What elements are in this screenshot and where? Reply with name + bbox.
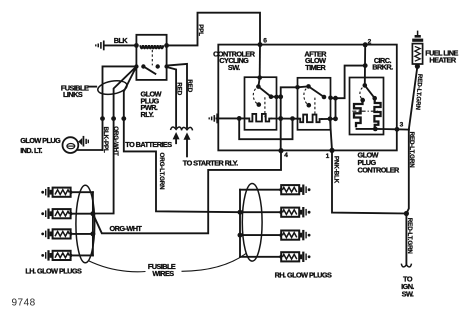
- fusible links ellipse: [97, 79, 128, 97]
- wire: [74, 254, 93, 256]
- cycling dashed arc: [253, 89, 257, 104]
- wire contact to timer: [271, 96, 281, 98]
- timer dashed drop: [314, 98, 316, 115]
- svg-text:LINKS: LINKS: [63, 90, 83, 99]
- fuel line heater element: [412, 44, 422, 64]
- wire: [240, 234, 278, 236]
- svg-text:PPL: PPL: [197, 24, 204, 36]
- LH bus: [92, 192, 94, 255]
- wire node6 stem: [259, 45, 261, 78]
- wire node 3: [375, 128, 409, 131]
- relay coil terminal dots: [134, 43, 139, 48]
- cycling switch pivot and arm: [258, 78, 259, 87]
- wire: [74, 213, 93, 215]
- wire PPL (relay to node 6): [167, 13, 260, 46]
- svg-text:IND. LT.: IND. LT.: [20, 146, 42, 155]
- leader curve to RH ellipse: [182, 254, 247, 272]
- node 2: [363, 42, 368, 47]
- LH fusible wires ellipse: [76, 185, 95, 263]
- bullet connector dots on fan wires: [100, 116, 105, 121]
- svg-text:2: 2: [368, 38, 372, 45]
- svg-text:1: 1: [326, 153, 330, 160]
- ground G1 (left of BLK wire): [95, 41, 105, 51]
- RH bus: [239, 190, 241, 257]
- svg-text:CONTROLER: CONTROLER: [358, 166, 401, 175]
- fuel line heater connector: [417, 31, 419, 36]
- breaker dash-dot line: [352, 110, 379, 112]
- wire node2 stem to breaker pivot: [364, 45, 366, 86]
- leader curve from LH ellipse: [88, 261, 146, 272]
- breaker element right wall: [374, 99, 380, 127]
- svg-text:RED-LT.GRN: RED-LT.GRN: [406, 218, 413, 255]
- relay coil: [140, 45, 163, 48]
- breaker pivot and arm: [363, 83, 368, 88]
- wire branch node2 to timer contact: [331, 66, 366, 99]
- svg-text:RLY.: RLY.: [141, 110, 154, 119]
- wire: [74, 191, 93, 193]
- RH glow plug 3: [278, 230, 310, 240]
- svg-text:HEATER: HEATER: [429, 55, 456, 64]
- node 4: [278, 148, 283, 153]
- svg-text:GLOW PLUG: GLOW PLUG: [20, 136, 61, 145]
- RH glow plug 2: [278, 207, 310, 217]
- leader dash: [88, 86, 96, 88]
- wire RED-LT.GRN (heater down): [409, 66, 418, 129]
- relay U1 box: [136, 35, 166, 80]
- wire node1 drop: [330, 119, 332, 151]
- LH glow plug 1: [41, 187, 73, 197]
- svg-text:WIRES: WIRES: [152, 269, 174, 278]
- wire: [74, 233, 93, 235]
- circuit breaker box: [350, 78, 384, 135]
- svg-text:4: 4: [284, 152, 288, 159]
- ground G2 (left of big box): [209, 114, 219, 124]
- wire vertical A (timer contact to rail): [335, 98, 337, 119]
- wire PNK-BLK: [332, 150, 406, 213]
- RH glow plug 4: [278, 252, 310, 262]
- svg-text:3: 3: [400, 122, 404, 129]
- timer dashed arc: [304, 89, 308, 105]
- rail junction dots: [237, 116, 242, 121]
- LH glow plug 3: [41, 229, 73, 239]
- breaker dashed arc: [360, 88, 363, 100]
- connector arrow to starter relay: [181, 127, 192, 139]
- wire: [240, 256, 278, 258]
- lamp wire: [78, 149, 103, 151]
- wire BLK: [104, 44, 136, 46]
- RH fusible wires ellipse: [242, 184, 262, 262]
- LH glow plug 2: [41, 209, 73, 219]
- wire: [240, 211, 278, 213]
- svg-text:RED: RED: [186, 79, 193, 92]
- lamp connector: [78, 138, 82, 145]
- svg-text:PNK-BLK: PNK-BLK: [333, 156, 340, 184]
- breaker bottom wire: [357, 128, 376, 130]
- hook connector: [401, 264, 411, 267]
- bimetal rail: [217, 117, 247, 119]
- wire U loop below cycling switch: [239, 118, 292, 139]
- svg-text:RED-LT.GRN: RED-LT.GRN: [408, 132, 415, 169]
- node 1: [329, 148, 334, 153]
- timer pivot and arm: [298, 85, 309, 88]
- svg-text:BLK: BLK: [114, 36, 129, 45]
- relay dashed link: [151, 50, 153, 66]
- wire RED 2 (to starter relay): [167, 64, 187, 128]
- svg-text:TO STARTER RLY.: TO STARTER RLY.: [183, 158, 238, 167]
- svg-text:9748: 9748: [12, 298, 36, 309]
- timer heater comb: [299, 115, 322, 123]
- glow plug indicator lamp: [63, 137, 79, 153]
- cycling switch box: [245, 77, 277, 130]
- relay switch blade: [143, 66, 155, 73]
- svg-text:SW.: SW.: [228, 63, 240, 72]
- svg-text:TO BATTERIES: TO BATTERIES: [125, 140, 172, 149]
- svg-text:TIMER: TIMER: [305, 63, 326, 72]
- svg-text:RED: RED: [176, 82, 183, 95]
- breaker element left wall: [354, 101, 363, 128]
- svg-text:BRKR.: BRKR.: [372, 62, 393, 71]
- svg-text:LH. GLOW PLUGS: LH. GLOW PLUGS: [25, 267, 82, 276]
- svg-text:ORG-WHT: ORG-WHT: [110, 224, 143, 233]
- node 6: [258, 42, 263, 47]
- svg-text:ORG-LT.GRN: ORG-LT.GRN: [158, 153, 165, 191]
- wire: [240, 189, 278, 191]
- svg-text:SW.: SW.: [402, 290, 414, 299]
- wire RED 1 (to batteries): [167, 67, 177, 127]
- wire to ignition switch: [405, 214, 407, 265]
- connector arrow to batteries: [171, 127, 182, 139]
- LH glow plug 4: [41, 250, 73, 260]
- svg-text:6: 6: [263, 38, 267, 45]
- svg-text:BLK-PPL: BLK-PPL: [102, 127, 109, 153]
- cycling heater comb: [247, 114, 272, 122]
- glow plug controller big box: [218, 45, 396, 151]
- cycling dashed drop: [264, 97, 266, 117]
- relay switch contacts: [134, 64, 138, 68]
- wire ORG-WHT long (LH bus to node 4): [93, 151, 281, 234]
- RH glow plug 1: [278, 185, 310, 195]
- svg-text:RH. GLOW PLUGS: RH. GLOW PLUGS: [275, 270, 332, 279]
- wire fan from relay to fusible links: [103, 66, 137, 150]
- after glow timer box: [298, 78, 331, 130]
- wire riser x280.7: [281, 87, 298, 150]
- wire down right side: [406, 130, 408, 214]
- svg-text:ORG-WHT: ORG-WHT: [112, 126, 119, 156]
